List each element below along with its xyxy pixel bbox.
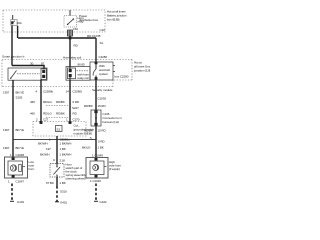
svg-text:G401: G401 — [60, 201, 67, 205]
svg-text:C270: C270 — [73, 117, 80, 121]
svg-text:C2280f: C2280f — [73, 90, 82, 94]
svg-text:1 BK/WH: 1 BK/WH — [60, 142, 72, 146]
relay R1 (horn relay) — [8, 68, 47, 80]
svg-text:1 BK: 1 BK — [98, 146, 104, 150]
svg-text:RD/BK: RD/BK — [56, 100, 65, 104]
svg-text:RD/BK: RD/BK — [56, 112, 65, 116]
fuse F1 — [11, 15, 22, 25]
wire below relay R1 — [12, 80, 14, 157]
svg-text:1397: 1397 — [3, 128, 10, 132]
svg-text:5 RD: 5 RD — [98, 139, 105, 143]
svg-text:BK/YE: BK/YE — [16, 91, 25, 95]
svg-text:(steering wheel): (steering wheel) — [66, 177, 86, 181]
svg-text:system: system — [99, 72, 109, 76]
svg-text:S227: S227 — [72, 106, 79, 110]
svg-text:15 RD: 15 RD — [98, 129, 107, 133]
svg-text:S310: S310 — [60, 190, 67, 194]
svg-text:RD/LG: RD/LG — [43, 100, 53, 104]
svg-text:1 C1046: 1 C1046 — [90, 179, 101, 183]
svg-text:86 85: 86 85 — [78, 62, 86, 66]
splice box S3 — [56, 126, 63, 132]
inline connector C1035 — [91, 110, 122, 126]
svg-text:S3: S3 — [56, 128, 60, 132]
svg-text:1 C1049: 1 C1049 — [92, 154, 103, 158]
svg-text:20A: 20A — [17, 21, 22, 25]
svg-text:460: 460 — [30, 100, 35, 104]
wire from SJB down — [56, 136, 58, 164]
svg-text:BK/YE: BK/YE — [16, 128, 25, 132]
svg-text:G101: G101 — [17, 200, 24, 204]
svg-text:module (GEM): module (GEM) — [74, 132, 93, 136]
svg-text:Security module: Security module — [92, 88, 113, 92]
wire from F1 right leg — [17, 26, 19, 38]
svg-text:218: 218 — [60, 158, 65, 162]
svg-text:C2280b: C2280b — [43, 90, 53, 94]
svg-text:1 BK: 1 BK — [60, 147, 66, 151]
wire below horn switch — [56, 177, 58, 186]
svg-text:harness (LH): harness (LH) — [103, 120, 119, 124]
junction node at bus and F2 wire — [69, 37, 72, 40]
svg-text:G102: G102 — [100, 200, 107, 204]
dashed ground wire right — [95, 184, 97, 202]
wire into relay R1 — [12, 66, 44, 70]
svg-text:57 BK: 57 BK — [46, 181, 54, 185]
ground G2 — [55, 201, 59, 203]
smart junction box SJB dashed outline — [2, 60, 132, 87]
svg-text:C1047: C1047 — [16, 180, 25, 184]
leader B — [46, 117, 70, 119]
bridge wire — [13, 139, 96, 141]
fuse F2 — [68, 30, 73, 36]
svg-text:C10: C10 — [100, 28, 106, 32]
ground G3 — [94, 200, 98, 202]
svg-text:C1048: C1048 — [16, 153, 25, 157]
high note horn H2 — [86, 158, 108, 179]
ground G1 — [10, 200, 14, 202]
svg-text:box (BJB): box (BJB) — [107, 18, 120, 22]
svg-text:BK/WH: BK/WH — [40, 152, 49, 156]
wire from relay R1 pin box down — [40, 80, 42, 125]
wire from F1 left leg — [11, 26, 13, 66]
svg-text:BK/YE: BK/YE — [16, 146, 25, 150]
svg-text:C1035: C1035 — [98, 97, 107, 101]
wire below switch box — [95, 80, 97, 157]
svg-text:box C2280: box C2280 — [115, 75, 129, 79]
svg-text:(if equip): (if equip) — [109, 167, 120, 171]
circuit breaker in BJB — [64, 10, 84, 27]
svg-text:relay: relay — [78, 20, 85, 24]
leader A — [46, 105, 70, 107]
svg-text:BK/LG: BK/LG — [82, 146, 91, 150]
svg-text:197: 197 — [46, 147, 51, 151]
svg-text:15A: 15A — [73, 27, 78, 31]
SJB lower dashed box — [33, 122, 86, 137]
svg-text:14: 14 — [66, 90, 70, 94]
svg-text:S105: S105 — [16, 96, 23, 100]
svg-text:6 RD: 6 RD — [73, 100, 80, 104]
svg-text:460: 460 — [30, 112, 35, 116]
dashed ground wire — [56, 186, 58, 202]
svg-text:S1: S1 — [100, 41, 104, 45]
svg-text:Horn relay coil: Horn relay coil — [63, 56, 81, 60]
low note horn H1 — [5, 157, 28, 178]
horn switch SW1 — [50, 164, 64, 178]
wire down right — [95, 38, 97, 62]
switch box in SJB — [90, 62, 115, 80]
svg-text:Smart junction b: Smart junction b — [2, 55, 25, 59]
svg-text:15 RD: 15 RD — [98, 104, 107, 108]
svg-text:horn: horn — [29, 167, 35, 171]
svg-text:RD/BK: RD/BK — [84, 104, 93, 108]
relay R2 — [66, 67, 90, 81]
dashed ground wire left — [11, 184, 13, 202]
wire from F2 down to relay 2 — [69, 36, 71, 67]
svg-text:RD/LG: RD/LG — [43, 112, 53, 116]
battery junction box BJB dashed outline — [3, 10, 105, 32]
svg-text:C2280: C2280 — [99, 55, 108, 59]
svg-text:RD C1035: RD C1035 — [87, 34, 101, 38]
svg-text:1 BK/WH: 1 BK/WH — [60, 152, 72, 156]
wire below relay R2 — [69, 80, 71, 124]
pin entries box B — [40, 121, 43, 124]
svg-text:relay coil: relay coil — [78, 76, 89, 80]
svg-text:junction (SJB): junction (SJB) — [133, 69, 150, 73]
svg-text:1 BK: 1 BK — [60, 181, 66, 185]
svg-text:1397: 1397 — [3, 91, 10, 95]
svg-text:1397: 1397 — [3, 146, 10, 150]
wire bus horizontal — [18, 37, 96, 39]
svg-text:C27: C27 — [43, 117, 49, 121]
svg-text:BK/WH: BK/WH — [38, 142, 47, 146]
